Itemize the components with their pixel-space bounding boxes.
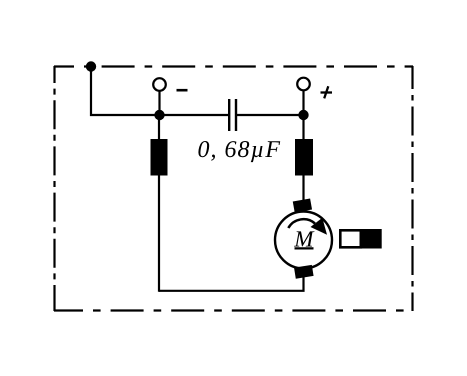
enclosure dash-dot border left (53, 66, 55, 311)
node plus junction (298, 110, 308, 120)
wire junction to choke L1 (158, 115, 160, 139)
label plus (321, 86, 333, 98)
connector plug black half (361, 229, 382, 249)
terminal minus circle (153, 78, 166, 91)
capacitor C1 value 0,68uF (198, 141, 280, 162)
wire terminal plus stub (302, 90, 304, 115)
wire capacitor to plus junction (236, 114, 304, 116)
motor rotation arrowhead (311, 218, 328, 235)
connector plug white half (340, 230, 361, 247)
wire junction to choke L2 (302, 115, 304, 139)
motor M1 brush top (293, 198, 312, 212)
motor M1 housing circle (275, 212, 332, 269)
label minus (177, 89, 188, 92)
terminal plus circle (297, 78, 310, 91)
motor M1 brush bottom (294, 265, 314, 279)
capacitor C1 plate left (228, 99, 230, 131)
enclosure dash-dot border bottom (54, 309, 413, 311)
enclosure dash-dot border right (411, 66, 413, 311)
wire terminal minus stub (158, 91, 160, 115)
wire node A down and right to terminal bus (91, 67, 229, 116)
node minus junction (154, 110, 164, 120)
node A (junction on enclosure) (86, 61, 96, 71)
wire choke L1 down to bottom bus (158, 175, 160, 292)
wire choke L2 down to motor (302, 175, 304, 202)
enclosure dash-dot border top (54, 65, 413, 67)
capacitor C1 plate right (235, 99, 237, 131)
choke L1 body (151, 139, 168, 176)
wire bottom bus (159, 276, 304, 291)
motor rotation arrow arc (288, 219, 315, 228)
choke L2 body (295, 139, 313, 176)
motor label M underlined (294, 231, 315, 246)
